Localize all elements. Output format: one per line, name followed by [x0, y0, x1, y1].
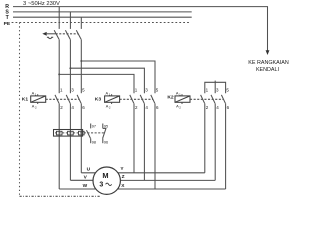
contactor K3 coil [105, 96, 120, 102]
svg-text:M: M [102, 171, 108, 180]
svg-text:95: 95 [104, 124, 108, 128]
svg-text:KENDALI: KENDALI [256, 67, 279, 73]
wire K3 pin6 to node X [154, 103, 156, 189]
K3 contact pole 3 [151, 95, 155, 103]
wire switch to K1 phase 2 [69, 39, 71, 93]
K3 contact pole 1 [130, 95, 134, 103]
K2 linkage dash-dot [190, 98, 223, 100]
K3 linkage dash-dot [120, 98, 153, 100]
motor M1 circle [93, 167, 120, 194]
svg-text:W: W [83, 183, 88, 189]
svg-text:96: 96 [104, 140, 108, 144]
overload element phase 1 [56, 131, 62, 135]
overload aux NC contact 95-96 [102, 124, 104, 129]
bus PE [12, 22, 191, 24]
bus R [13, 6, 268, 8]
K2 star bridge [205, 82, 226, 93]
overload relay F box [54, 130, 83, 137]
K1 terminal A2 [37, 102, 39, 104]
K1 terminal A1 [37, 94, 39, 96]
wire node W [59, 188, 107, 190]
wire node U [81, 172, 107, 174]
tap wire S to K3 pin3 [70, 68, 144, 93]
svg-text:K1: K1 [22, 96, 29, 102]
arrow to control circuit [266, 50, 270, 55]
svg-text:3: 3 [99, 182, 103, 189]
PE wire to motor frame [20, 195, 102, 197]
svg-text:K3: K3 [95, 97, 102, 103]
switch latch hook [47, 37, 53, 38]
wire K3 pin2 to node Y [133, 103, 135, 172]
wire K3 pin4 to node Z [143, 103, 145, 180]
disconnect switch Q pole 1 blade [54, 30, 59, 39]
K3 contact pole 2 [140, 95, 144, 103]
svg-text:PE: PE [4, 21, 11, 27]
wire drop R to switch [58, 7, 60, 29]
switch actuator line [47, 33, 56, 35]
wire K1 to overload phase 1 [58, 103, 60, 189]
svg-text:97: 97 [92, 124, 96, 128]
svg-text:K2: K2 [167, 95, 174, 101]
svg-text:98: 98 [92, 140, 96, 144]
wire node V [70, 179, 107, 181]
PE wire drop [19, 23, 21, 197]
junction S tap [69, 67, 71, 69]
K1 contact pole 1 [55, 95, 59, 103]
bus S [13, 11, 192, 13]
svg-text:Z: Z [122, 174, 125, 180]
overload element phase 3 [79, 131, 85, 135]
K2 contact pole 2 [211, 95, 215, 103]
svg-text:KE RANGKAIAN: KE RANGKAIAN [248, 60, 289, 66]
wire to control circuit [267, 7, 269, 51]
wire switch to K1 phase 1 [58, 39, 60, 93]
switch actuator arrow [42, 32, 46, 36]
tap wire T to K3 pin5 [81, 61, 155, 93]
wire K2 pin6 down to node X [225, 103, 227, 189]
wire node X [107, 188, 226, 190]
K2 contact pole 3 [221, 95, 225, 103]
overload element phase 2 [68, 131, 74, 135]
overload aux NO contact 97-98 [90, 124, 92, 129]
disconnect switch Q pole 3 blade [76, 30, 81, 39]
svg-text:U: U [87, 166, 91, 172]
K3 terminal A1 [111, 94, 113, 96]
switch linkage dash-dot [56, 33, 79, 35]
wire drop T to switch [80, 17, 82, 29]
overload relay F linkage dash-dot [55, 132, 104, 134]
wire node Z [107, 179, 215, 181]
wire K2 pin2 down to node Y [204, 103, 206, 172]
disconnect switch Q pole 2 blade [65, 30, 70, 39]
K1 contact pole 3 [77, 95, 81, 103]
K2 contact pole 1 [201, 95, 205, 103]
tap wire R to K3 pin1 [59, 74, 134, 93]
junction R tap [58, 73, 60, 75]
K1 linkage dash-dot [46, 98, 79, 100]
K2 terminal A1 [181, 94, 183, 96]
K2 terminal A2 [181, 102, 183, 104]
contactor K2 coil [175, 96, 190, 102]
wire K1 to overload phase 3 [80, 103, 82, 172]
K3 terminal A2 [111, 102, 113, 104]
junction T tap [80, 60, 82, 62]
wire switch to K1 phase 3 [80, 39, 82, 93]
wire drop S to switch [69, 12, 71, 29]
wire node Y [107, 172, 205, 174]
wire K2 pin4 down to node Z [214, 103, 216, 180]
wire K1 to overload phase 2 [69, 103, 71, 180]
contactor K1 coil [31, 96, 46, 102]
bus T [13, 16, 192, 18]
K1 contact pole 2 [66, 95, 70, 103]
